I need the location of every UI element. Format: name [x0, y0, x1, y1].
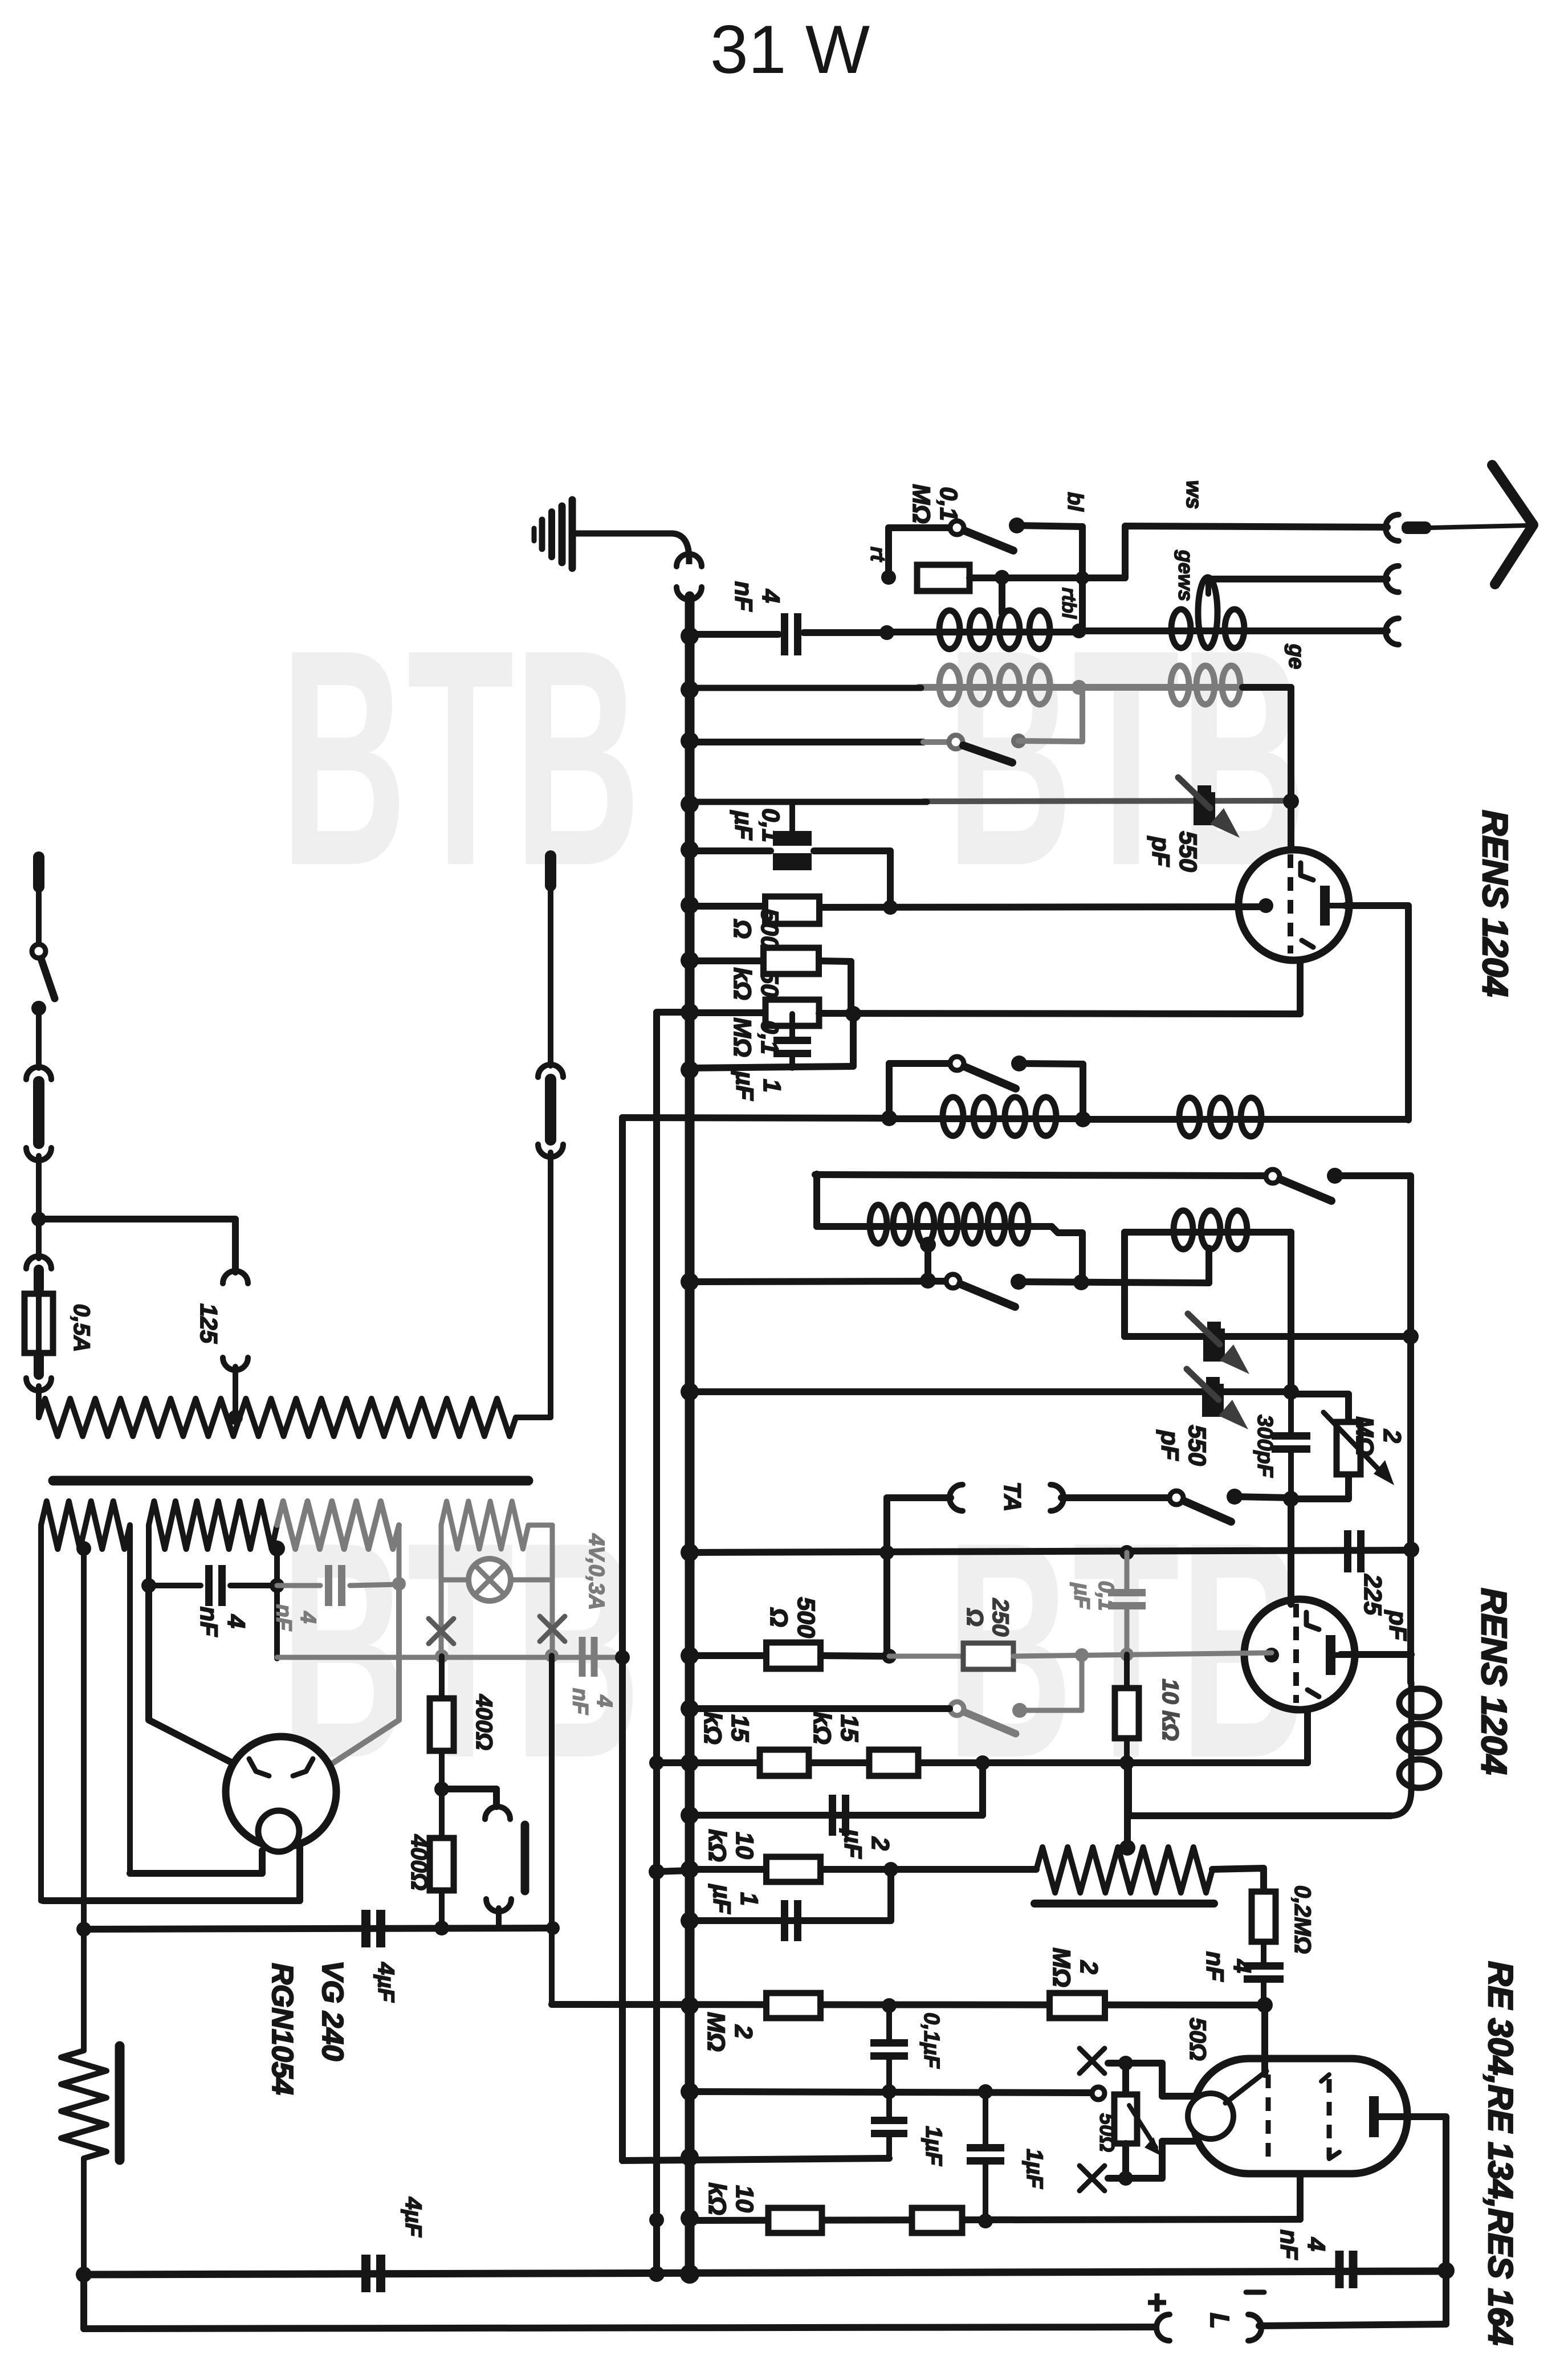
wire coilVI left riser	[1121, 1232, 1128, 1336]
wire switch rt to corner	[1017, 525, 1082, 527]
wire coilVI tap riser	[1205, 1248, 1212, 1283]
jack battery plus	[1156, 2314, 1170, 2341]
svg-text:250: 250	[988, 1598, 1013, 1637]
jack ge	[1386, 618, 1399, 645]
switch gray TA2	[950, 1702, 1027, 1734]
wire gews jack lead	[1208, 576, 1387, 582]
wire row 1302	[690, 739, 923, 745]
jack battery minus	[1248, 2314, 1261, 2341]
wire 125 tap	[39, 1219, 235, 1272]
wire conn branch	[442, 1786, 496, 1792]
inductor big coil	[817, 1223, 1052, 1230]
svg-text:4: 4	[592, 1694, 616, 1707]
capacitor 0,1uF ladder	[789, 802, 795, 833]
switch coilV	[950, 1057, 964, 1070]
wire row 1493	[690, 847, 771, 854]
wire row 3519	[552, 2004, 1265, 2005]
svg-text:Ω: Ω	[962, 1608, 987, 1626]
junction heater mid	[615, 1650, 630, 1665]
label plus	[1148, 2293, 1166, 2312]
trimmer 550pF a	[1194, 792, 1215, 825]
wire TA riser	[883, 1498, 890, 1656]
junction coilV mid	[1075, 1111, 1091, 1127]
transformer core	[53, 1476, 528, 1486]
svg-text:225: 225	[1359, 1574, 1386, 1616]
wire bus to coil III	[690, 685, 921, 691]
svg-text:kΩ: kΩ	[728, 967, 756, 1000]
svg-text:0,1: 0,1	[1094, 1581, 1118, 1611]
svg-text:400Ω: 400Ω	[471, 1694, 496, 1750]
winding HV left	[149, 1501, 277, 1549]
switch wave row1302	[949, 735, 963, 749]
junction gray 1977	[1120, 1648, 1134, 1661]
svg-text:nF: nF	[271, 1604, 295, 1632]
wire anode3	[1379, 2117, 1446, 2271]
capacitor 4nF antenna	[781, 613, 788, 655]
junction HVct cap row	[270, 1578, 284, 1593]
inductor coil IV gray	[1079, 684, 1243, 691]
junction 2476/2718	[1403, 1542, 1419, 1558]
junction row1110	[879, 625, 894, 640]
junction 147/3990	[76, 2267, 92, 2283]
svg-text:pF: pF	[1147, 836, 1174, 867]
svg-text:4V,0,3A: 4V,0,3A	[584, 1533, 608, 1610]
wire mains3	[36, 1219, 42, 1258]
inductor coil VI	[1125, 1229, 1291, 1236]
wire switch rt left	[889, 524, 950, 531]
junction 1897/2250	[1073, 1274, 1089, 1290]
svg-text:550: 550	[1183, 1425, 1211, 1466]
wire row 4080 right	[1259, 2324, 1446, 2326]
inductor antenna coil II	[1079, 627, 1263, 634]
resistor 2M c	[1050, 1993, 1105, 2018]
junction 400 mid	[434, 1782, 449, 1796]
svg-text:nF: nF	[1275, 2230, 1302, 2260]
svg-text:15: 15	[836, 1714, 863, 1742]
wire 400a top	[439, 1656, 445, 1698]
wire riser swV left	[886, 1063, 893, 1118]
svg-text:500: 500	[756, 908, 783, 949]
junction 1560/3670	[882, 2084, 897, 2099]
svg-text:50: 50	[756, 970, 783, 997]
wire row 1779	[819, 1013, 1300, 1014]
capacitor 1uF c	[983, 2092, 988, 2145]
capacitor 4nF anodeL	[149, 1583, 201, 1588]
svg-text:0,1: 0,1	[757, 808, 784, 842]
resistor 0,1M ant	[917, 565, 970, 591]
jack TA right	[1050, 1485, 1064, 1511]
wire row 3185	[690, 1812, 983, 1819]
junction 1724/3093	[975, 1755, 990, 1770]
svg-text:1µF: 1µF	[921, 2126, 946, 2166]
svg-text:L: L	[1205, 2313, 1235, 2329]
capacitor 0,1uF c	[886, 2006, 892, 2040]
fuse connector top	[26, 1256, 51, 1269]
connector bus top	[677, 554, 702, 567]
svg-text:RENS 1204: RENS 1204	[1474, 1588, 1513, 1774]
wire mains4	[36, 1386, 42, 1417]
wire swV right	[1019, 1063, 1083, 1064]
svg-text:2: 2	[866, 1836, 894, 1851]
wire cathode1 row	[822, 907, 1267, 907]
svg-text:nF: nF	[730, 581, 757, 612]
junction mains 125 tap	[31, 1212, 46, 1226]
wire z-step to ws jack	[1082, 526, 1387, 578]
x contact lampL	[429, 1619, 454, 1644]
potentiometer bar	[1034, 1900, 1214, 1908]
wire 50k right	[819, 961, 851, 961]
wire main bus	[685, 596, 695, 2274]
wire rect fil lead2	[43, 1848, 300, 1901]
switch mains	[32, 944, 46, 958]
wire grid3b riser	[1297, 2173, 1304, 2219]
svg-text:µF: µF	[731, 1070, 758, 1101]
svg-text:VG 240: VG 240	[316, 1961, 349, 2061]
svg-text:0,1µF: 0,1µF	[919, 2012, 943, 2069]
svg-text:pF: pF	[1384, 1610, 1411, 1641]
wire row 1408	[690, 799, 927, 805]
wire res01M right	[970, 574, 1082, 581]
junction 125 primary	[228, 1410, 243, 1425]
wire row 3385	[84, 1928, 553, 1929]
wire tap riser	[924, 1245, 931, 1281]
svg-text:kΩ: kΩ	[808, 1711, 836, 1745]
svg-text:50Ω: 50Ω	[1095, 2113, 1119, 2152]
svg-text:4: 4	[222, 1614, 250, 1628]
wire TA left	[887, 1494, 951, 1501]
junction 50pot bottom	[1118, 2171, 1133, 2186]
junction cathode row	[883, 900, 898, 915]
svg-text:rtbl: rtbl	[1058, 588, 1080, 620]
resistor 400 b	[430, 1838, 454, 1890]
resistor 50k	[764, 948, 819, 974]
junction pot tap	[1119, 1840, 1135, 1856]
junction tap row	[920, 1273, 936, 1289]
wire row 3990	[84, 2271, 1446, 2275]
tube U1 RENS1204	[1239, 850, 1349, 960]
wire lamp left	[439, 1525, 444, 1580]
wire 50pot bottom rail	[1108, 2175, 1162, 2182]
switch band2	[1266, 1169, 1280, 1183]
wire anode left diag	[149, 1586, 238, 1766]
wire riser rt-pivot	[885, 528, 892, 577]
tube U2 RENS1204	[1244, 1599, 1355, 1710]
junction 50pot top	[1118, 2056, 1133, 2071]
svg-text:rt: rt	[866, 547, 890, 563]
junction anodeL cap	[141, 1578, 156, 1593]
resistor 10k c	[768, 2208, 822, 2233]
junction 2537/3984	[1437, 2262, 1455, 2279]
svg-text:MΩ: MΩ	[1351, 1416, 1378, 1456]
wire pot to 0,2M	[1212, 1868, 1264, 1893]
junction coil I right	[1072, 623, 1086, 638]
capacitor 4nF anodeR gray	[277, 1583, 320, 1588]
junction res01M right	[995, 570, 1009, 585]
svg-text:4µF: 4µF	[373, 1962, 398, 2003]
connector grid arc top	[485, 1807, 510, 1819]
wire tube2 bottom	[1304, 1709, 1311, 1763]
wire row 2345	[1125, 1333, 1411, 1340]
svg-text:bl: bl	[1063, 492, 1087, 512]
junction gray 968	[545, 1649, 559, 1662]
svg-text:Ω: Ω	[765, 1607, 792, 1627]
wire anode2	[1341, 1651, 1411, 1658]
wire gray sw3 out	[1020, 1708, 1082, 1713]
resistor 0,1M ladder	[765, 1000, 819, 1026]
wire row 3093	[657, 1759, 1308, 1766]
svg-text:BTB: BTB	[280, 586, 641, 930]
wire row 2905 left	[690, 1652, 766, 1659]
capacitor 0,1uF gray	[1125, 1552, 1130, 1591]
wire coilVII to pot	[1129, 1812, 1391, 1819]
wire anode1	[1345, 906, 1408, 1120]
wire riser bigcoil	[813, 1174, 820, 1226]
connector mains right	[538, 1065, 563, 1077]
wire lampR drop	[550, 1580, 555, 1656]
capacitor 4nF c	[1335, 2251, 1344, 2288]
wire riser 1497	[850, 1014, 857, 1066]
connector grid pill	[521, 1825, 530, 1891]
wire bus jog	[657, 1012, 690, 2274]
svg-text:10: 10	[731, 1832, 758, 1859]
wire sw2 corner	[1335, 1176, 1411, 1682]
wire lamp right	[528, 1523, 552, 1528]
svg-text:4: 4	[1302, 2237, 1330, 2251]
svg-text:gews: gews	[1174, 549, 1198, 601]
svg-text:µF: µF	[708, 1884, 735, 1914]
capacitor 4nF b	[1261, 1942, 1266, 1963]
junction bus bottom	[680, 2264, 699, 2284]
transformer primary	[39, 1399, 516, 1436]
tube V3 RE304	[1193, 2059, 1407, 2174]
svg-text:4: 4	[1228, 1959, 1256, 1973]
wire 2M branch	[1291, 1394, 1349, 1423]
wire rect fil lead1	[130, 1851, 262, 1873]
inductor coil VII	[1408, 1682, 1415, 1790]
junction res01M left	[881, 570, 896, 585]
wire fil ct drop	[81, 1548, 87, 2051]
wire 50k row	[690, 957, 763, 964]
junction grid2 row2442	[1283, 1384, 1299, 1400]
junction 400b row	[434, 1921, 449, 1935]
junction 1556/2724	[879, 1545, 894, 1560]
junction 1729/3898	[978, 2214, 993, 2228]
wire gray cathode 1	[889, 1654, 963, 1659]
wire row 3670	[690, 2092, 1093, 2093]
svg-text:125: 125	[195, 1303, 222, 1344]
svg-text:nF: nF	[1201, 1951, 1228, 1982]
svg-text:4: 4	[757, 589, 784, 603]
wire ground to bus	[575, 533, 689, 564]
mains pin left	[33, 857, 44, 887]
x contact lampR	[540, 1616, 565, 1641]
svg-text:µF: µF	[1069, 1582, 1093, 1609]
junction grid3 row	[1257, 1997, 1273, 2013]
tube V4 rectifier	[226, 1737, 336, 1847]
svg-text:MΩ: MΩ	[1048, 1947, 1075, 1987]
fuse connector bottom	[34, 1355, 44, 1375]
wire heater row	[622, 1118, 887, 1118]
capacitor 225pF	[1344, 1530, 1351, 1572]
svg-text:10: 10	[731, 2185, 758, 2212]
fuse 0,5A	[25, 1294, 53, 1353]
junction 1560/3519	[882, 1998, 897, 2013]
trimmer 550pF b	[1203, 1328, 1225, 1362]
svg-text:RENS 1204: RENS 1204	[1475, 810, 1514, 996]
svg-text:2: 2	[1378, 1429, 1406, 1443]
capacitor 1uF ladder	[789, 1014, 795, 1038]
capacitor 4nF gray mid	[579, 1637, 586, 1677]
junction bigcoil tap	[920, 1237, 936, 1253]
capacitor 1uF d	[886, 2092, 892, 2118]
capacitor 4uF b	[361, 2255, 370, 2292]
wire row 1110	[690, 631, 779, 638]
svg-text:550: 550	[1174, 831, 1201, 872]
wire row 2442	[693, 1388, 1291, 1395]
resistor 500 ladder	[765, 896, 820, 924]
junction 1497/1779	[845, 1006, 861, 1022]
wire row 3280	[657, 1870, 690, 1872]
junction gray 1898	[1075, 1648, 1089, 1662]
wire HV ct drop	[274, 1548, 280, 1658]
mains pin right	[545, 856, 556, 886]
wire heater drop	[619, 1118, 626, 2161]
svg-text:4: 4	[296, 1611, 320, 1623]
svg-text:kΩ: kΩ	[703, 1829, 731, 1862]
inductor antenna coil I	[887, 629, 1079, 635]
svg-text:2: 2	[1075, 1960, 1102, 1974]
junction coilV left	[881, 1110, 897, 1126]
resistor 500 b	[767, 1643, 821, 1669]
svg-text:MΩ: MΩ	[907, 484, 935, 523]
junction 1152/3093	[649, 1755, 664, 1770]
wire bias bottom	[81, 2158, 87, 2275]
svg-text:ge: ge	[1284, 643, 1308, 669]
wire row 2249	[693, 1281, 946, 1282]
inductor coil V left	[889, 1115, 1083, 1122]
wire grid2 drop	[1288, 1498, 1294, 1604]
resistor 15k b	[869, 1750, 918, 1776]
junction 970 row3385	[549, 1656, 555, 2004]
svg-text:4µF: 4µF	[401, 2196, 426, 2238]
label minus	[1246, 2290, 1264, 2295]
svg-text:500: 500	[792, 1597, 820, 1638]
wire TA to switch	[1061, 1494, 1168, 1501]
switch TA	[1170, 1491, 1183, 1505]
svg-text:kΩ: kΩ	[699, 1711, 726, 1745]
resistor 2M var	[1337, 1422, 1361, 1474]
wire 0,1M row	[690, 1009, 765, 1016]
junction gray anodeR	[392, 1577, 406, 1591]
wire row 3785	[622, 2158, 889, 2161]
wire switch3 feed	[690, 1705, 950, 1712]
junction HV ct	[269, 1541, 285, 1556]
antenna arrow	[1492, 465, 1533, 584]
svg-text:TA: TA	[999, 1482, 1026, 1512]
junction 1556/2906	[882, 1649, 897, 1664]
wire riser 147 bottom	[80, 2275, 87, 2329]
svg-text:31 W: 31 W	[710, 11, 870, 88]
svg-text:0,1: 0,1	[935, 487, 962, 521]
svg-text:10 kΩ: 10 kΩ	[1158, 1678, 1183, 1741]
svg-text:nF: nF	[568, 1688, 592, 1715]
svg-text:µF: µF	[730, 810, 757, 841]
inductor coil III gray	[919, 684, 1079, 691]
wire 2uF riser	[979, 1763, 986, 1815]
junction 1563/3280	[883, 1862, 898, 1877]
svg-text:µF: µF	[839, 1828, 866, 1859]
wire mains1	[36, 1008, 42, 1068]
wire fil left end	[38, 1525, 44, 1901]
svg-text:2: 2	[730, 2024, 757, 2039]
svg-text:15: 15	[726, 1714, 754, 1742]
switch rt	[950, 521, 964, 535]
arrow 50ohm	[1129, 2105, 1156, 2147]
svg-text:MΩ: MΩ	[728, 1017, 756, 1057]
svg-text:1: 1	[758, 1079, 785, 1093]
jack ws	[1386, 515, 1399, 541]
jack gews	[1386, 566, 1399, 592]
junction fil ct	[76, 1541, 91, 1556]
junction coil III right	[1072, 680, 1086, 695]
svg-text:kΩ: kΩ	[703, 2182, 731, 2215]
svg-text:0,2MΩ: 0,2MΩ	[1290, 1885, 1315, 1954]
wire row 2060	[815, 1175, 1265, 1176]
jack TA left	[950, 1485, 963, 1511]
junction 1152/3284	[649, 1864, 665, 1880]
connector grid arc bottom	[486, 1899, 511, 1912]
resistor 250 gray	[963, 1643, 1013, 1669]
wire row 1872	[690, 1066, 853, 1068]
connector 125 a	[223, 1271, 248, 1283]
resistor 10k a	[1124, 1654, 1130, 1688]
svg-text:pF: pF	[1156, 1430, 1183, 1461]
wire 10kb right	[821, 1866, 1036, 1873]
svg-text:MΩ: MΩ	[702, 2012, 730, 2051]
resistor bias	[61, 2051, 107, 2158]
wire lampL drop	[439, 1580, 444, 1656]
wire row 4086 left	[84, 2327, 1154, 2329]
potentiometer 50ohm wiper	[1092, 2087, 1105, 2100]
junction 1152/3895	[649, 2212, 664, 2227]
junction 1152/3990	[649, 2266, 665, 2282]
svg-text:RGN1054: RGN1054	[266, 1963, 299, 2094]
switch band3	[946, 1274, 960, 1288]
wire TA switch out	[1235, 1497, 1291, 1498]
resistor 50ohm box	[1114, 2094, 1137, 2143]
lamp 4V	[469, 1559, 511, 1601]
arrow 2M var	[1323, 1412, 1386, 1477]
resistor 10k d	[912, 2208, 962, 2233]
junction gray 775	[435, 1649, 449, 1663]
wire grid1 drop	[1288, 801, 1294, 855]
resistor 10k b	[767, 1857, 821, 1882]
antenna plug pin	[1402, 521, 1431, 534]
wire row 1406 gray	[923, 801, 1291, 801]
inductor coil V right	[1174, 1116, 1266, 1123]
junction 1729/3670	[978, 2084, 993, 2099]
wire grid3 into tube	[1261, 2005, 1268, 2075]
wire tap to coilI	[999, 577, 1005, 613]
wire fil right end	[127, 1525, 133, 1873]
wire pot riser	[1124, 1763, 1131, 1847]
x contact top	[1080, 2048, 1105, 2073]
wire anode right diag	[329, 1584, 399, 1766]
wire row 1302 right	[1019, 741, 1082, 741]
wire row 3370	[690, 1917, 891, 1924]
wire coilVI right riser	[1288, 1232, 1294, 1392]
svg-text:400Ω: 400Ω	[406, 1834, 431, 1890]
